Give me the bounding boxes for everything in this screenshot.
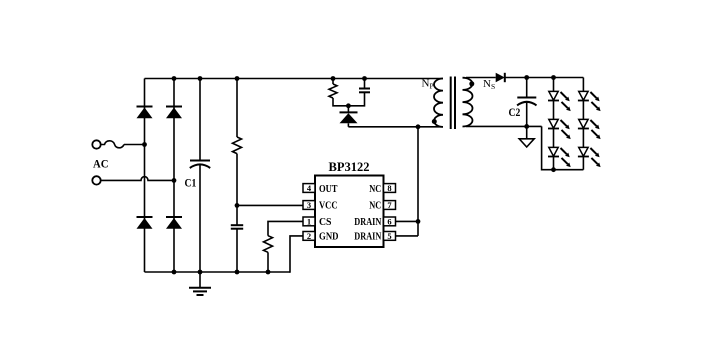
node top rail / C1	[198, 76, 203, 81]
svg-text:8: 8	[387, 183, 391, 193]
wire secondary bottom	[466, 125, 542, 127]
svg-text:C1: C1	[185, 178, 197, 190]
wire output return	[542, 126, 584, 169]
wire right bridge column	[173, 79, 175, 273]
wire pin 6 to drain	[396, 220, 419, 222]
fuse F1	[101, 141, 124, 148]
node top rail / C4	[362, 76, 367, 81]
wire primary bottom	[348, 126, 443, 128]
pin 3 box	[303, 200, 315, 210]
wire fuse to bridge	[124, 144, 145, 146]
node C2 top	[524, 75, 529, 80]
node bottom rail / C1	[198, 270, 203, 275]
svg-text:NP: NP	[422, 78, 434, 91]
node LED string left top	[551, 75, 556, 80]
svg-text:DRAIN: DRAIN	[354, 231, 382, 242]
resistor R3 snubber	[329, 79, 348, 106]
diode D6 snubber	[340, 106, 358, 127]
pin 7 box	[384, 200, 396, 210]
wire LED string right	[582, 78, 584, 170]
ground chassis symbol	[519, 126, 534, 147]
wire top rail	[145, 78, 444, 80]
svg-text:AC: AC	[93, 159, 109, 171]
LED L5	[578, 119, 601, 139]
svg-text:NC: NC	[369, 200, 381, 211]
terminal AC neutral	[92, 176, 100, 184]
capacitor C2	[517, 78, 536, 127]
pin 8 box	[384, 183, 396, 193]
node primary polarity dot	[432, 119, 437, 124]
diode D3 bridge lower-left	[137, 217, 153, 229]
node AC neutral / bridge	[172, 178, 177, 183]
wire bottom rail	[145, 271, 291, 273]
svg-text:5: 5	[387, 231, 391, 241]
node snubber junction	[346, 103, 351, 108]
resistor R1 startup	[233, 79, 242, 226]
LED L4	[578, 91, 601, 111]
svg-text:CS: CS	[319, 217, 332, 228]
transformer T1 primary winding	[434, 79, 443, 127]
wire LED string left	[553, 78, 555, 170]
wire pin 5 to drain	[396, 235, 419, 237]
capacitor C3 vcc	[231, 225, 243, 272]
terminal AC live	[92, 140, 100, 148]
node AC live / bridge	[142, 142, 147, 147]
diode D1 bridge upper-left	[137, 107, 153, 119]
node bottom rail / R2	[266, 270, 271, 275]
LED L6	[578, 147, 601, 167]
svg-text:NC: NC	[369, 184, 381, 195]
svg-text:DRAIN: DRAIN	[354, 217, 382, 228]
svg-text:C2: C2	[509, 107, 521, 119]
node drain / primary	[416, 124, 421, 129]
LED L2	[548, 119, 571, 139]
wire CS pin to R2	[268, 221, 303, 235]
node bottom rail / D4 column	[172, 270, 177, 275]
pin 4 box	[303, 183, 315, 193]
transformer T1 secondary winding	[463, 78, 473, 127]
node top rail / R1	[235, 76, 240, 81]
transformer core	[451, 77, 455, 130]
ground earth symbol	[189, 272, 211, 295]
wire GND pin to bottom rail	[290, 236, 303, 273]
diode D2 bridge upper-right	[166, 107, 182, 119]
node LED string left bottom	[551, 167, 556, 172]
svg-text:BP3122: BP3122	[329, 160, 370, 174]
resistor R2 current sense	[264, 236, 273, 272]
svg-text:2: 2	[307, 231, 311, 241]
pin 5 box	[384, 231, 396, 241]
wire drain vertical	[417, 127, 419, 236]
pin 2 box	[303, 231, 315, 241]
node drain pin6	[416, 219, 421, 224]
svg-text:NS: NS	[483, 78, 495, 91]
node top rail / D2 column	[172, 76, 177, 81]
diode D4 bridge lower-right	[166, 217, 182, 229]
wire VCC to pin 3	[237, 204, 303, 206]
wire secondary top	[466, 77, 496, 79]
svg-text:6: 6	[387, 216, 391, 226]
LED L3	[548, 147, 571, 167]
capacitor C1	[190, 79, 210, 273]
wire output top rail	[505, 77, 584, 79]
node top rail / R3	[331, 76, 336, 81]
svg-text:3: 3	[307, 200, 311, 210]
wire AC neutral with crossover hop	[101, 177, 174, 181]
LED L1	[548, 91, 571, 111]
svg-text:VCC: VCC	[319, 200, 338, 211]
node secondary polarity dot	[469, 81, 474, 86]
pin 6 box	[384, 216, 396, 226]
diode D5 output rectifier	[496, 73, 505, 82]
svg-text:OUT: OUT	[319, 184, 338, 195]
pin 1 box	[303, 216, 315, 226]
wire left bridge column	[144, 79, 146, 273]
node C2 bottom	[524, 124, 529, 129]
svg-text:GND: GND	[319, 231, 339, 242]
node bottom rail / C3	[235, 270, 240, 275]
svg-text:1: 1	[307, 216, 311, 226]
op IC U1 BP3122 body	[315, 176, 384, 248]
capacitor C4 snubber	[348, 79, 370, 106]
node VCC junction	[235, 203, 240, 208]
